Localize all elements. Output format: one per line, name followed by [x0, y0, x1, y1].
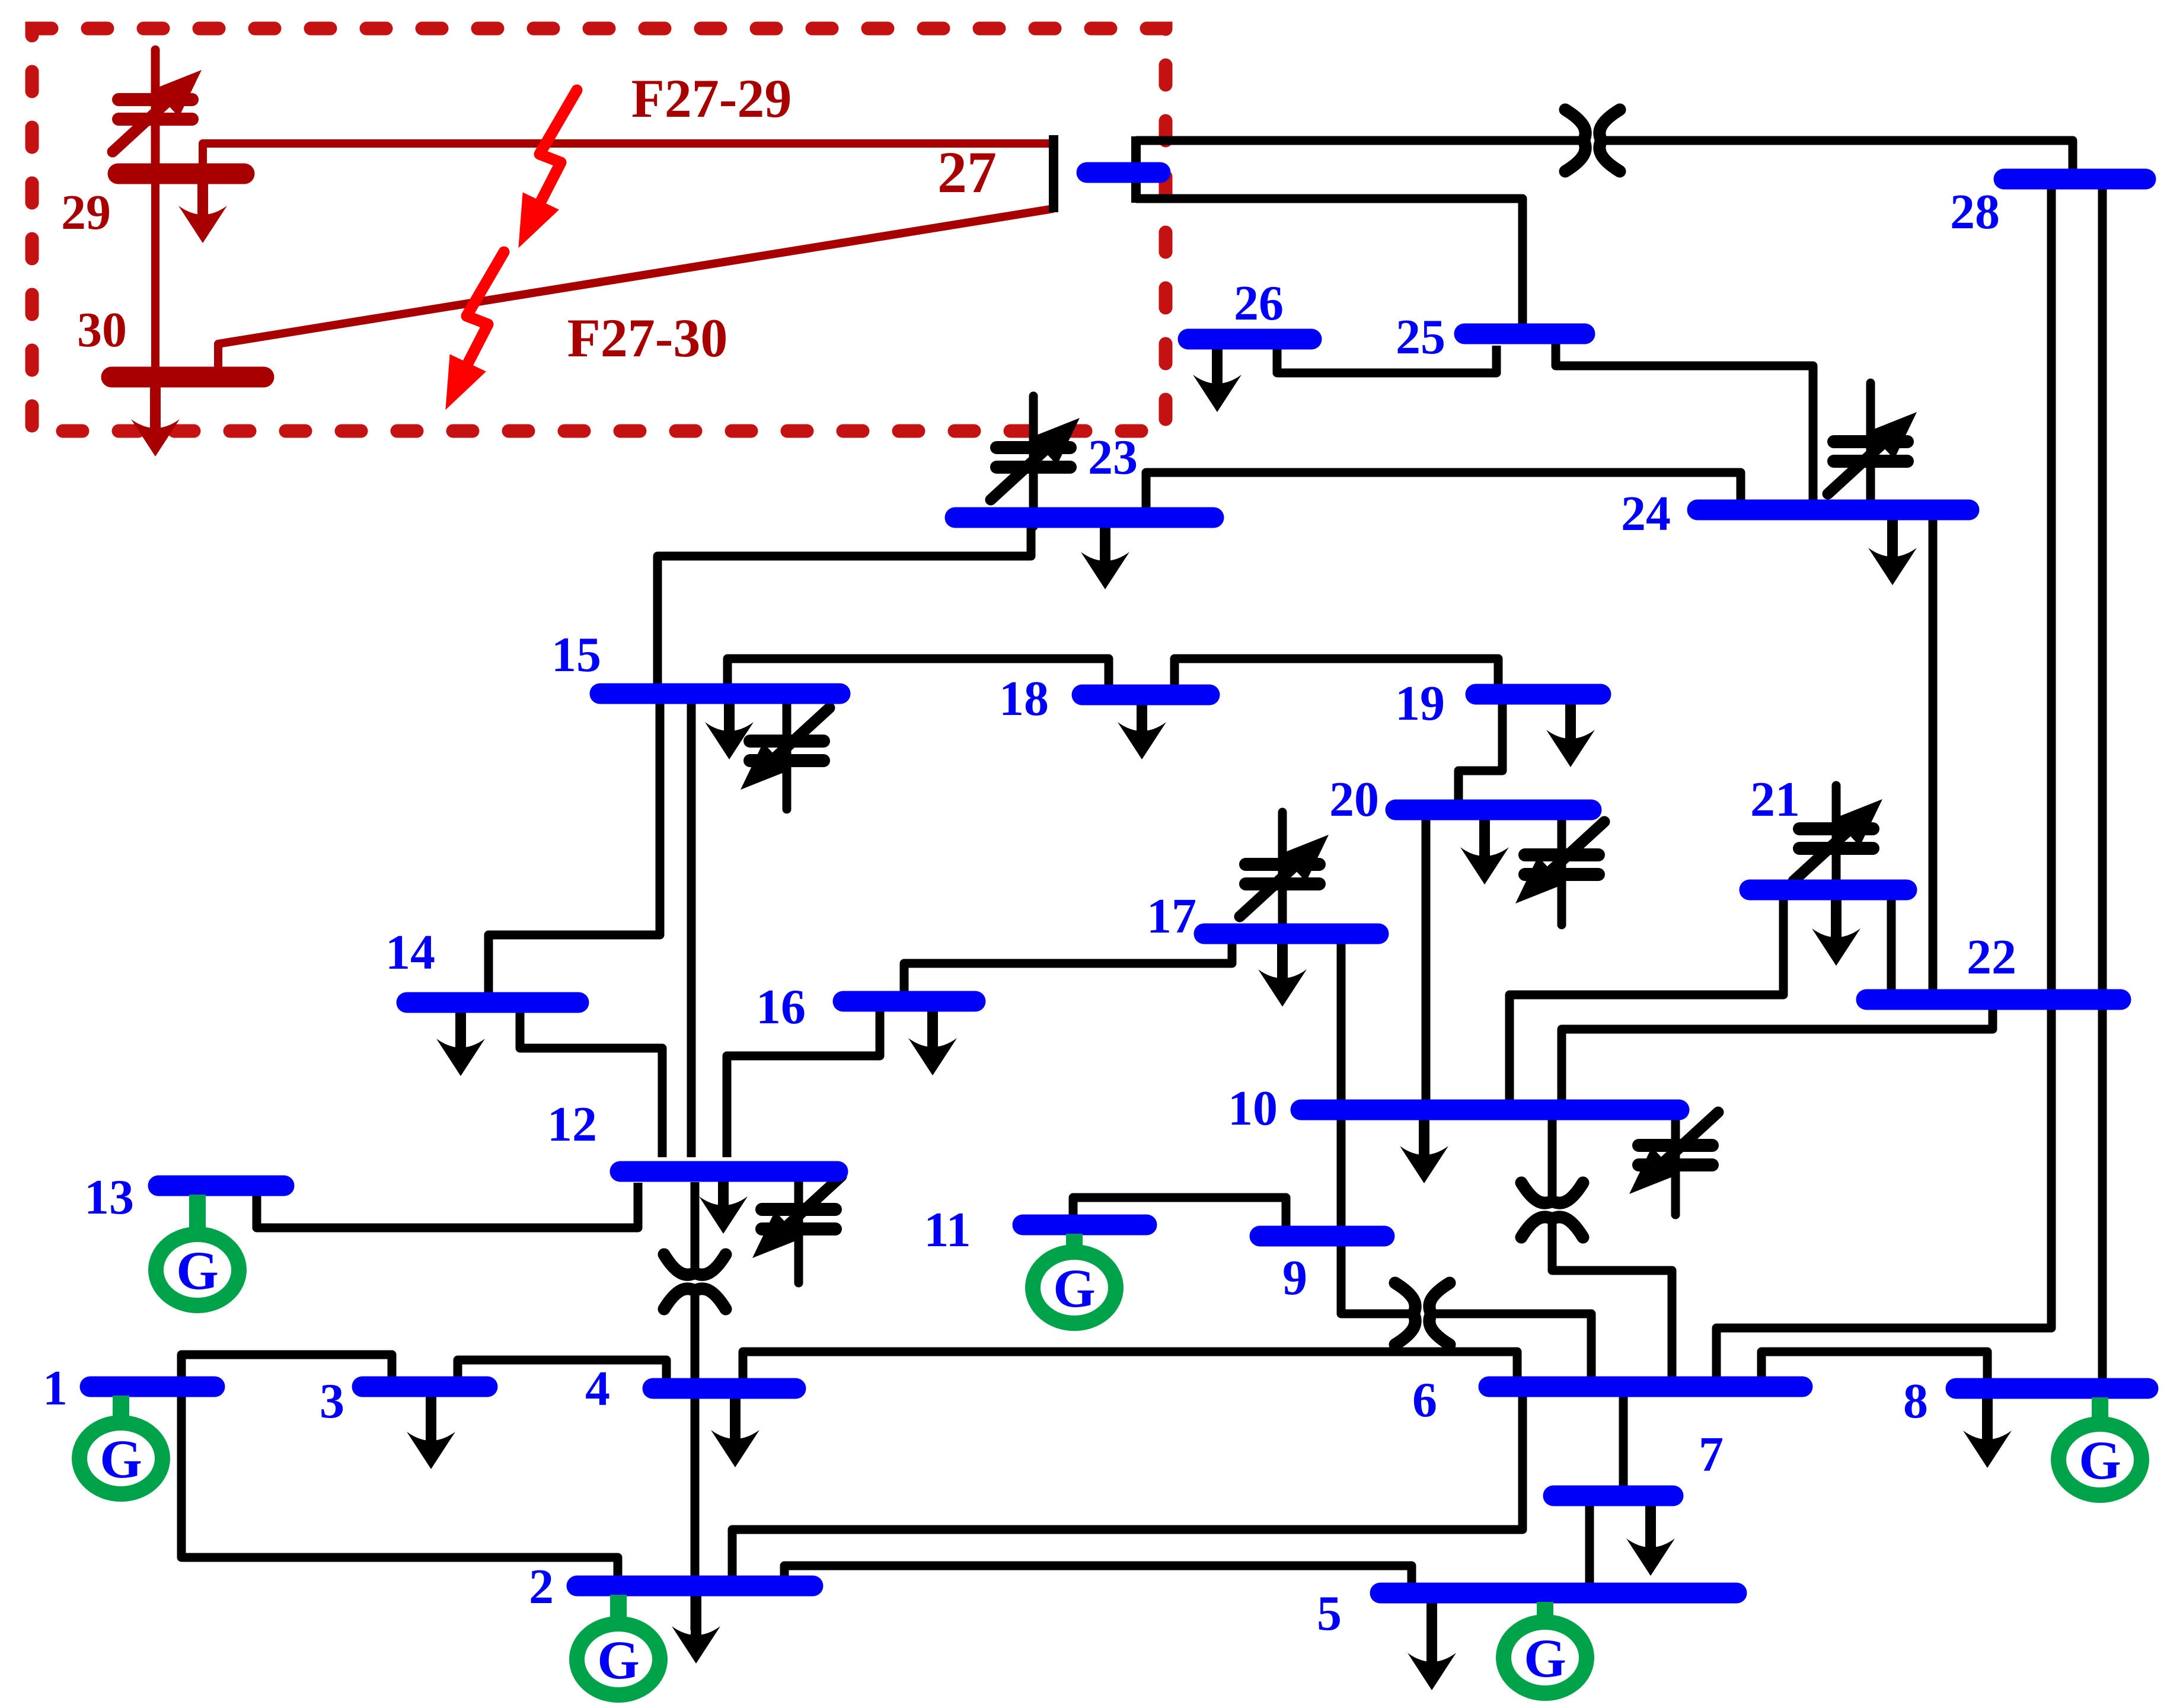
wire 16-12	[727, 1011, 880, 1157]
transformer 12-4	[664, 1254, 726, 1309]
wire 27-28 right segment	[1600, 141, 2073, 171]
bus 12	[620, 1161, 838, 1182]
svg-text:28: 28	[1950, 184, 2000, 240]
bus 9 label	[1282, 1250, 1307, 1305]
bus 23	[955, 507, 1214, 528]
generator G2	[577, 1595, 660, 1695]
bus 28 label	[1950, 184, 2000, 240]
shunt compensator bus 29	[113, 50, 202, 164]
bus 7 label	[1699, 1427, 1724, 1482]
svg-text:21: 21	[1750, 772, 1800, 827]
bus 15 label	[551, 627, 601, 682]
load arrow bus 7	[1626, 1506, 1675, 1576]
wire 4-6	[743, 1352, 1517, 1380]
fault label F27-29	[631, 68, 792, 129]
wire 3-4	[458, 1360, 666, 1380]
bus 6 label	[1412, 1372, 1437, 1428]
wire 10-6 lower segment	[1552, 1218, 1672, 1378]
svg-text:29: 29	[61, 185, 111, 240]
load arrow bus 8	[1963, 1399, 2012, 1468]
svg-text:11: 11	[924, 1202, 971, 1257]
bus 12 label	[547, 1097, 597, 1152]
wire 28-8	[2098, 188, 2107, 1380]
generator G11	[1033, 1234, 1116, 1323]
wire 17-10-9 through line	[1341, 943, 1415, 1314]
svg-text:G: G	[100, 1429, 142, 1489]
bus 3 label	[320, 1374, 344, 1429]
svg-text:3: 3	[320, 1374, 344, 1429]
shunt compensator bus 15	[741, 701, 829, 809]
bus 4	[653, 1378, 796, 1399]
bus 16	[843, 991, 975, 1012]
fault label F27-30	[567, 308, 728, 368]
bus 11 label	[924, 1202, 971, 1257]
wire 23-24	[1146, 473, 1741, 509]
wire 14-12	[520, 1012, 662, 1157]
svg-text:1: 1	[43, 1361, 68, 1416]
svg-text:12: 12	[547, 1097, 597, 1152]
wire 6-7	[1619, 1396, 1628, 1487]
bus 27 right terminal stub	[1131, 136, 1141, 203]
load arrow bus 12	[699, 1182, 748, 1234]
svg-text:10: 10	[1228, 1081, 1278, 1136]
bus 5 label	[1317, 1586, 1342, 1641]
load arrow bus 16	[908, 1011, 957, 1075]
wire 10-22	[1562, 1008, 1993, 1101]
bus 21 label	[1750, 772, 1800, 827]
generator G8	[2059, 1397, 2142, 1495]
svg-text:2: 2	[529, 1559, 554, 1614]
transformer 9-6	[1395, 1283, 1450, 1345]
bus 18 label	[999, 671, 1049, 726]
load arrow bus 23	[1081, 528, 1129, 589]
load arrow bus 4	[711, 1399, 759, 1467]
bus 10 label	[1228, 1081, 1278, 1136]
bus 18	[1082, 685, 1209, 705]
wire 10-21	[1509, 899, 1783, 1101]
wire 24-22	[1929, 519, 1938, 991]
load arrow bus 17	[1258, 944, 1307, 1007]
svg-text:19: 19	[1395, 676, 1445, 731]
bus 30 label	[77, 302, 127, 357]
bus 24 label	[1621, 486, 1671, 541]
load arrow bus 15	[705, 704, 754, 759]
load arrow bus 5	[1408, 1603, 1456, 1690]
load arrow bus 3	[407, 1397, 455, 1469]
shunt compensator bus 17	[1240, 812, 1329, 926]
svg-text:18: 18	[999, 671, 1049, 726]
bus 7	[1553, 1486, 1673, 1506]
svg-text:6: 6	[1412, 1372, 1437, 1428]
load arrow bus 29	[178, 174, 227, 243]
load arrow bus 2	[672, 1596, 720, 1664]
bus 23 label	[1088, 430, 1138, 485]
wire 7-5	[1585, 1506, 1594, 1584]
bus 10	[1301, 1100, 1679, 1120]
wire 12-4 transformer upper	[691, 1182, 700, 1274]
bus 22	[1866, 989, 2121, 1010]
svg-text:F27-29: F27-29	[631, 68, 792, 129]
svg-text:14: 14	[385, 925, 435, 980]
load arrow bus 20	[1460, 820, 1509, 885]
bus 1	[90, 1377, 215, 1397]
wire 20-10	[1422, 819, 1431, 1102]
generator G5	[1504, 1602, 1587, 1693]
wire 25-24	[1556, 343, 1813, 502]
bus 17	[1204, 924, 1378, 944]
wire 2-6	[732, 1396, 1523, 1576]
bus 25	[1464, 324, 1585, 344]
shunt compensator bus 12	[752, 1176, 841, 1283]
bus 6	[1489, 1377, 1802, 1397]
shunt compensator bus 10	[1629, 1112, 1718, 1215]
wire 12-15	[687, 703, 696, 1157]
shunt compensator bus 20	[1515, 819, 1604, 925]
bus 14	[407, 992, 579, 1013]
load arrow bus 24	[1868, 520, 1917, 585]
wire 27-25	[1136, 199, 1523, 325]
bus 29 label	[61, 185, 111, 240]
fault bolt F27-29	[518, 90, 577, 248]
bus 20	[1396, 800, 1591, 821]
bus 2	[577, 1576, 813, 1597]
svg-text:25: 25	[1396, 309, 1445, 365]
svg-text:13: 13	[84, 1170, 134, 1225]
wire 29-30 and load feeder	[151, 50, 159, 422]
bus 19	[1476, 684, 1601, 705]
bus 13	[158, 1176, 284, 1196]
bus 21	[1750, 880, 1907, 901]
wire 16-17	[904, 944, 1232, 992]
bus 5	[1380, 1583, 1737, 1604]
wire fault line F27-29 (27 to 29)	[203, 143, 1051, 164]
wire 28-6	[1716, 188, 2051, 1378]
bus 26 label	[1234, 276, 1284, 331]
bus 17 label	[1147, 889, 1196, 944]
wire 18-19	[1175, 659, 1498, 686]
shunt compensator bus 21	[1793, 786, 1882, 881]
svg-text:30: 30	[77, 302, 127, 357]
wire 11-9	[1073, 1198, 1286, 1227]
wire 15-23	[658, 528, 1031, 685]
wire 26-25	[1277, 346, 1496, 373]
bus 16 label	[756, 979, 806, 1035]
transformer 10-6	[1521, 1183, 1583, 1237]
svg-text:8: 8	[1903, 1374, 1928, 1429]
svg-text:7: 7	[1699, 1427, 1724, 1482]
bus 22 label	[1967, 930, 2016, 985]
bus 8	[1956, 1378, 2148, 1399]
load arrow bus 19	[1546, 704, 1595, 767]
wire 13-12	[257, 1183, 638, 1228]
svg-text:27: 27	[937, 139, 997, 205]
svg-text:16: 16	[756, 979, 806, 1035]
svg-text:G: G	[597, 1630, 640, 1690]
bus 27 left terminal stub	[1049, 135, 1058, 212]
svg-text:G: G	[176, 1240, 219, 1301]
wire 1-3	[181, 1355, 392, 1378]
wire fault line F27-30 (27 to 30)	[218, 209, 1054, 368]
shunt compensator bus 23	[991, 396, 1080, 526]
wire 1-2	[181, 1396, 618, 1576]
svg-text:17: 17	[1147, 889, 1196, 944]
bus 28	[2004, 169, 2146, 190]
bus 27	[1087, 162, 1160, 183]
load arrow bus 21	[1812, 900, 1860, 966]
svg-text:24: 24	[1621, 486, 1671, 541]
shunt compensator bus 24	[1828, 383, 1917, 500]
bus 9	[1260, 1226, 1384, 1247]
bus 8 label	[1903, 1374, 1928, 1429]
wire 27-28 left segment	[1136, 136, 1585, 145]
svg-text:26: 26	[1234, 276, 1284, 331]
transformer 27-28	[1565, 110, 1620, 171]
wire 9-6 right segment	[1430, 1314, 1591, 1378]
fault study region dashed box	[32, 28, 1166, 431]
svg-text:22: 22	[1967, 930, 2016, 985]
bus 27 label	[937, 139, 997, 205]
wire 21-22	[1887, 899, 1896, 991]
bus 3	[362, 1377, 487, 1397]
load arrow bus 14	[436, 1013, 485, 1076]
bus 13 label	[84, 1170, 134, 1225]
svg-text:4: 4	[585, 1361, 610, 1416]
wire 15-18	[727, 659, 1109, 686]
bus 25 label	[1396, 309, 1445, 365]
generator G1	[79, 1396, 162, 1494]
bus 2 label	[529, 1559, 554, 1614]
svg-text:G: G	[1524, 1628, 1566, 1688]
svg-text:5: 5	[1317, 1586, 1342, 1641]
fault bolt F27-30	[445, 252, 504, 410]
bus 11	[1023, 1215, 1147, 1235]
svg-text:G: G	[1053, 1258, 1096, 1318]
bus 30	[111, 367, 264, 388]
load arrow bus 26	[1193, 349, 1242, 412]
wire 14-15	[489, 703, 660, 994]
svg-text:23: 23	[1088, 430, 1138, 485]
svg-text:F27-30: F27-30	[567, 308, 728, 368]
svg-text:9: 9	[1282, 1250, 1307, 1305]
load arrow bus 30	[131, 387, 180, 456]
wire 19-20	[1459, 703, 1502, 802]
bus 29	[118, 164, 244, 184]
load arrow bus 18	[1118, 705, 1166, 759]
bus 4 label	[585, 1361, 610, 1416]
bus 24	[1697, 500, 1969, 521]
svg-text:15: 15	[551, 627, 601, 682]
wire 12-4-2 vertical	[691, 1289, 700, 1630]
svg-text:G: G	[2079, 1430, 2121, 1490]
bus 15	[600, 684, 840, 704]
wire 6-8	[1761, 1352, 1987, 1380]
bus 26	[1188, 329, 1311, 350]
bus 1 label	[43, 1361, 68, 1416]
wire 2-5	[784, 1566, 1412, 1584]
svg-text:20: 20	[1329, 772, 1379, 827]
bus 20 label	[1329, 772, 1379, 827]
generator G13	[156, 1195, 239, 1305]
load arrow bus 10	[1400, 1120, 1448, 1183]
wire 10-6 transformer line	[1548, 1119, 1557, 1202]
bus 14 label	[385, 925, 435, 980]
bus 19 label	[1395, 676, 1445, 731]
